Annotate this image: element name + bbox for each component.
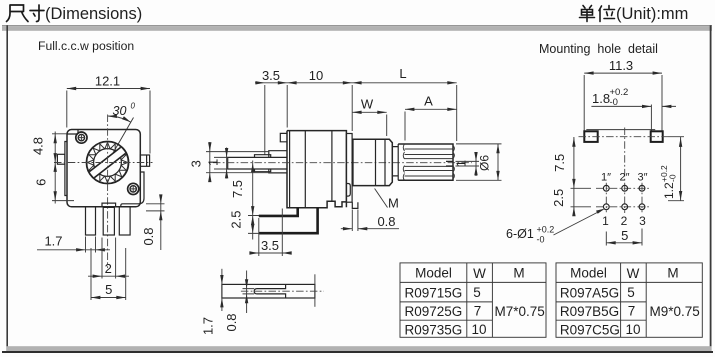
rotor outer circle	[87, 142, 129, 184]
front body cover	[67, 130, 140, 207]
svg-text:L: L	[399, 66, 406, 81]
table2 outer	[556, 263, 702, 337]
shaft flat lines	[446, 161, 453, 166]
svg-text:0: 0	[131, 102, 136, 111]
30 deg radial line	[108, 118, 134, 163]
svg-text:7.5: 7.5	[230, 180, 245, 198]
flange side bump	[347, 184, 351, 197]
dim dia6 line	[497, 144, 499, 180]
svg-text:R097C5G: R097C5G	[560, 322, 620, 337]
svg-text:R097A5G: R097A5G	[560, 285, 619, 300]
svg-text:2: 2	[105, 261, 112, 276]
bracket plate	[269, 151, 287, 173]
svg-text:2″: 2″	[619, 171, 629, 183]
svg-text:10: 10	[625, 322, 640, 337]
svg-text:R09725G: R09725G	[405, 304, 463, 319]
svg-text:(Dimensions): (Dimensions)	[45, 5, 142, 23]
dim A line	[405, 108, 457, 110]
svg-text:7: 7	[474, 303, 482, 318]
svg-text:Model: Model	[570, 266, 607, 281]
svg-text:Full.c.c.w position: Full.c.c.w position	[38, 39, 134, 53]
terminal center line	[241, 290, 324, 292]
thread relief lines	[376, 139, 386, 185]
svg-text:W: W	[361, 97, 374, 112]
svg-text:7: 7	[628, 303, 636, 318]
dim 7.5/2.5 ext lines	[248, 216, 262, 234]
svg-text:R097B5G: R097B5G	[560, 304, 619, 319]
dim 2 ext lines	[102, 238, 116, 279]
case body	[287, 131, 346, 208]
hole col lines	[606, 183, 642, 213]
svg-text:Ø6: Ø6	[478, 155, 492, 171]
dim W ext line	[386, 115, 388, 137]
side center line	[213, 162, 472, 164]
dim 3.5 bottom line	[250, 252, 292, 254]
dim 1.8 ext line	[650, 105, 652, 131]
dim 1.2 text with tolerance (rotated)	[659, 165, 678, 199]
shaft root	[397, 144, 399, 180]
case top-left tab	[280, 133, 287, 141]
shaft end scallops	[453, 146, 454, 180]
hole 3r1	[639, 185, 645, 191]
svg-text:6: 6	[34, 179, 49, 186]
front center line vertical	[107, 115, 109, 269]
dim 5 ext lines	[91, 248, 126, 300]
dim 3.5 bottom ext lines	[259, 209, 283, 257]
svg-text:6-Ø1: 6-Ø1	[506, 227, 534, 241]
svg-text:(Unit):mm: (Unit):mm	[616, 5, 688, 23]
front center line horizontal	[54, 162, 153, 164]
dim 1.8 line	[591, 105, 676, 107]
leg 1	[86, 207, 96, 235]
leg 3	[119, 207, 130, 235]
svg-text:Model: Model	[415, 266, 452, 281]
svg-text:1″: 1″	[601, 171, 611, 183]
case internal wall 2	[331, 131, 333, 202]
ear bottom-right outline	[121, 172, 144, 207]
dim 1 shaft line	[475, 152, 477, 176]
svg-text:10: 10	[471, 322, 486, 337]
svg-text:3: 3	[639, 214, 646, 228]
svg-text:W: W	[473, 266, 486, 281]
dim 11.3 ext lines	[584, 75, 662, 131]
svg-text:3″: 3″	[637, 171, 647, 183]
svg-text:5: 5	[627, 285, 635, 300]
svg-text:1: 1	[206, 159, 221, 166]
pins band	[228, 157, 287, 169]
dim 12.1 ext lines	[67, 91, 150, 154]
terminal narrow pin	[254, 284, 285, 298]
dim 11.3 line	[584, 72, 662, 74]
frame top bar	[2, 25, 712, 26]
svg-text:5: 5	[105, 282, 112, 297]
bushing flange	[346, 134, 352, 203]
dim 0.8 front ext lines	[146, 204, 165, 211]
svg-text:2.5: 2.5	[551, 189, 566, 207]
screw top-left	[76, 132, 87, 143]
dim 5 line	[91, 297, 126, 299]
ear step top-left	[67, 130, 78, 135]
dim 0.8 front line	[160, 196, 162, 251]
svg-text:M: M	[388, 196, 399, 211]
dim 5 mounting ext lines	[606, 229, 642, 246]
svg-text:M7*0.75: M7*0.75	[495, 304, 545, 319]
svg-text:3.5: 3.5	[261, 238, 279, 253]
svg-text:-0: -0	[668, 174, 678, 182]
pin bump bottom	[255, 169, 271, 172]
M leader line	[375, 189, 388, 208]
frame right line	[710, 25, 712, 352]
dim 1.2 line	[680, 137, 682, 201]
svg-text:A: A	[424, 94, 433, 109]
dim 1.7 line	[37, 249, 110, 251]
svg-text:5: 5	[473, 285, 481, 300]
case internal wall 1	[304, 131, 306, 208]
dim 1.7 terminal line	[221, 269, 223, 311]
hole row 1 center line	[596, 187, 651, 189]
svg-text:1.8: 1.8	[592, 91, 610, 106]
svg-text:7.5: 7.5	[552, 154, 567, 172]
dim 4.8/6 ext lines	[52, 134, 74, 201]
dim 3 ext lines	[206, 152, 269, 173]
svg-text:10: 10	[309, 68, 323, 83]
svg-text:Mounting hole detail: Mounting hole detail	[539, 42, 658, 56]
top dim ext lines	[265, 85, 457, 155]
bushing anti-rotation tab	[352, 202, 358, 208]
left plate edge	[65, 142, 67, 196]
svg-text:0.8: 0.8	[224, 313, 239, 331]
dim W line	[352, 111, 387, 113]
pin edge ext lines	[214, 157, 228, 169]
svg-text:1.7: 1.7	[200, 317, 215, 335]
frame bottom bar	[6, 346, 711, 351]
svg-text:-0: -0	[537, 235, 545, 245]
title right CJK 单位	[580, 6, 615, 22]
svg-text:2.5: 2.5	[229, 211, 244, 229]
terminal right ext line	[314, 274, 316, 307]
30 deg arc with arrows	[108, 116, 131, 122]
svg-text:W: W	[627, 266, 640, 281]
terminal outer bar	[222, 284, 315, 298]
svg-text:M: M	[667, 266, 678, 281]
rotor inner circle	[94, 149, 122, 177]
table1 outer	[400, 263, 546, 337]
case left wall double line	[289, 131, 291, 208]
hole 1r2	[603, 204, 609, 210]
svg-text:3.5: 3.5	[262, 68, 280, 83]
dim 3 line	[209, 142, 211, 182]
hole 2r1	[622, 185, 628, 191]
slot right	[651, 131, 663, 142]
part top line	[586, 129, 655, 131]
right tab	[140, 155, 149, 166]
dim 4.8/6 line	[54, 132, 56, 204]
svg-text:2: 2	[621, 214, 628, 228]
leg 2 collar	[102, 203, 116, 207]
svg-text:1.2: 1.2	[662, 182, 676, 199]
frame left line	[6, 25, 8, 352]
top dim line 3.5/10/L	[255, 82, 457, 84]
leg 2	[103, 207, 114, 235]
dim 1 pin line	[226, 148, 228, 179]
svg-text:R09735G: R09735G	[405, 322, 463, 337]
dim 0.8 terminal line	[246, 271, 248, 314]
slot center line	[579, 136, 669, 138]
title left CJK 尺寸	[7, 5, 45, 22]
rotor teeth ring	[87, 142, 127, 182]
dim 1.2 ext lines	[668, 137, 684, 201]
dim 2 line	[88, 275, 129, 277]
svg-text:R09715G: R09715G	[405, 285, 463, 300]
hole 1r1	[603, 185, 609, 191]
dim 12.1 line	[67, 88, 150, 90]
part vertical center line	[624, 128, 626, 214]
svg-text:M: M	[513, 266, 524, 281]
dim 7.5/2.5 line	[252, 161, 254, 240]
neck	[392, 147, 398, 176]
dim 7.5/2.5 ext lines	[571, 188, 592, 207]
screw bottom-right	[128, 183, 139, 194]
dim 7.5/2.5 mounting line	[573, 137, 575, 216]
bent leg 2	[259, 208, 318, 233]
svg-text:+0.2: +0.2	[537, 225, 555, 235]
bushing threaded body	[353, 139, 392, 185]
dim A ext line	[404, 112, 406, 141]
svg-text:M9*0.75: M9*0.75	[650, 304, 700, 319]
svg-text:12.1: 12.1	[95, 74, 120, 89]
6-dia1 leader line	[554, 210, 604, 236]
shaft flute lines	[405, 149, 453, 176]
dim 0.8 side ext lines	[352, 210, 358, 232]
hole 3r2	[639, 204, 645, 210]
svg-text:5: 5	[621, 228, 628, 243]
pin bump top	[255, 155, 271, 158]
svg-text:3: 3	[189, 160, 204, 167]
svg-text:1.7: 1.7	[44, 234, 62, 249]
svg-text:11.3: 11.3	[609, 58, 633, 73]
svg-text:1: 1	[602, 214, 609, 228]
svg-text:0.8: 0.8	[141, 227, 156, 245]
hole row 2 center line	[596, 206, 651, 208]
dim 1.7 ext lines	[86, 237, 96, 253]
shaft body	[398, 144, 453, 180]
hole 2r2	[622, 204, 628, 210]
dim 5 mounting line	[606, 242, 642, 244]
svg-text:4.8: 4.8	[31, 137, 46, 155]
svg-text:0.8: 0.8	[377, 214, 395, 229]
dim 0.8 side line	[341, 228, 399, 230]
shaft start scallops	[403, 144, 404, 180]
left tab	[57, 154, 65, 164]
bent leg 1	[259, 208, 298, 216]
dim dia6 ext lines	[456, 144, 502, 180]
dim 0.8 terminal ext lines	[243, 289, 255, 294]
dim 1 shaft ext lines	[456, 161, 480, 166]
slot left	[584, 131, 597, 142]
